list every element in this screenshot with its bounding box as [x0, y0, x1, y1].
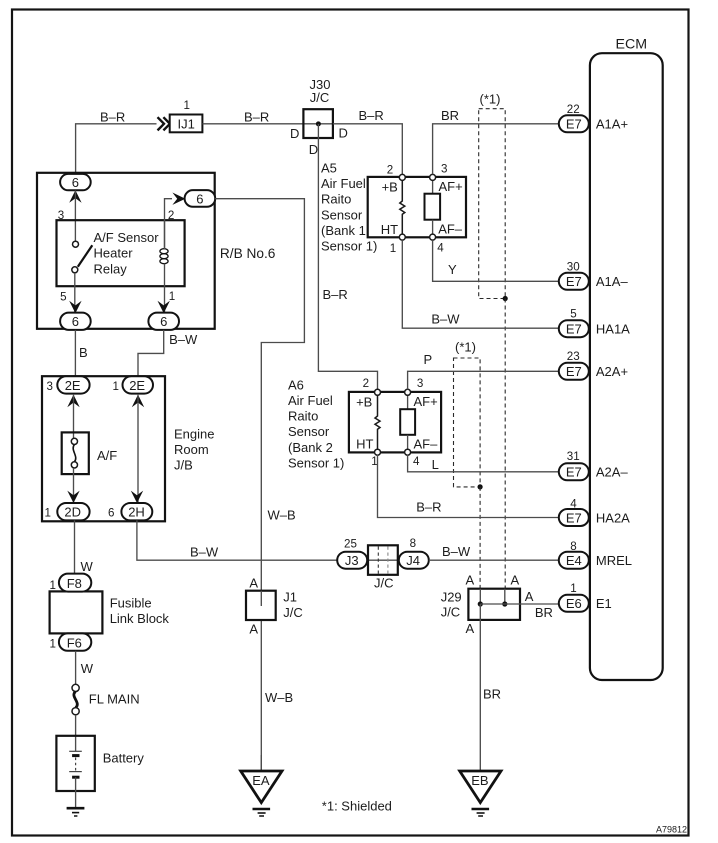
- svg-text:(Bank 1: (Bank 1: [321, 223, 366, 238]
- svg-text:2D: 2D: [64, 505, 81, 520]
- svg-text:2E: 2E: [65, 378, 81, 393]
- arrow into connector 6 top-left: [69, 190, 81, 203]
- junction block Engine Room J/B: [42, 376, 214, 521]
- svg-text:25: 25: [344, 538, 357, 551]
- svg-text:6: 6: [196, 191, 203, 206]
- svg-text:+B: +B: [382, 180, 398, 195]
- svg-text:Sensor: Sensor: [288, 424, 330, 439]
- svg-text:J29: J29: [441, 590, 462, 605]
- wire 2E pin3 to fuse: [73, 395, 75, 438]
- ECM terminal E6 pin 1 E1: [559, 582, 612, 612]
- svg-text:E7: E7: [566, 274, 582, 289]
- arrow into connector 6 bottom-left: [69, 301, 81, 313]
- svg-text:BR: BR: [483, 687, 501, 702]
- svg-text:HT: HT: [356, 436, 373, 451]
- connector IJ1 chevron: [158, 117, 170, 130]
- wire W-B relay pin 2 to J1 via corner: [215, 199, 304, 591]
- svg-text:E4: E4: [566, 553, 582, 568]
- svg-text:BR: BR: [441, 108, 459, 123]
- connector 2E pin 3: [47, 376, 90, 393]
- svg-text:L: L: [432, 457, 439, 472]
- connector 2E pin 1: [113, 376, 154, 393]
- svg-text:HA1A: HA1A: [596, 322, 630, 337]
- wire BR J29 to ground EB: [479, 604, 481, 771]
- svg-text:6: 6: [108, 507, 114, 520]
- svg-text:B–R: B–R: [416, 500, 441, 515]
- svg-text:3: 3: [417, 377, 423, 390]
- wire FL MAIN to battery: [75, 715, 77, 751]
- ECM terminal E7 pin 30 A1A-: [559, 261, 629, 290]
- svg-text:2: 2: [363, 377, 369, 390]
- svg-text:A1A+: A1A+: [596, 117, 628, 132]
- svg-text:E1: E1: [596, 596, 612, 611]
- connector 6 (R/B top-left, pin 3): [60, 174, 91, 190]
- shield around A5 signal wires (*1): [479, 91, 508, 301]
- svg-text:Air Fuel: Air Fuel: [288, 393, 333, 408]
- svg-text:W: W: [81, 559, 94, 574]
- wire BR A5 AF+ to ECM A1A+: [433, 124, 560, 175]
- svg-text:F6: F6: [67, 635, 82, 650]
- svg-text:Heater: Heater: [94, 246, 134, 261]
- A5 pin 4: [430, 234, 445, 254]
- wire W from 2D to F8: [74, 520, 76, 574]
- junction connector J1 J/C: [246, 576, 303, 637]
- svg-text:(*1): (*1): [455, 339, 476, 354]
- svg-text:(Bank 2: (Bank 2: [288, 440, 333, 455]
- relay block R/B No.6: [37, 173, 276, 329]
- svg-text:Engine: Engine: [174, 426, 214, 441]
- svg-text:6: 6: [160, 314, 167, 329]
- svg-text:4: 4: [437, 242, 444, 255]
- svg-text:A2A+: A2A+: [596, 364, 628, 379]
- A5 heater resistor: [400, 181, 405, 235]
- svg-text:5: 5: [60, 291, 66, 304]
- connector 6 (R/B bottom-left, pin 5): [60, 313, 91, 330]
- wire B from relay pin 5 to 2E: [74, 330, 76, 377]
- svg-text:Fusible: Fusible: [110, 596, 152, 611]
- wire relay pin 5: [74, 273, 76, 312]
- svg-text:Raito: Raito: [288, 409, 318, 424]
- ECM terminal E7 pin 5 HA1A: [559, 308, 630, 338]
- connector F6: [50, 633, 92, 650]
- svg-text:E6: E6: [566, 596, 582, 611]
- svg-text:1: 1: [113, 380, 119, 393]
- svg-text:6: 6: [72, 175, 79, 190]
- svg-text:4: 4: [413, 455, 420, 468]
- svg-text:J/C: J/C: [283, 605, 303, 620]
- wire B-R from J30 to A5 +B: [333, 124, 402, 175]
- svg-text:A1A–: A1A–: [596, 274, 629, 289]
- svg-text:EB: EB: [471, 773, 488, 788]
- svg-text:J4: J4: [406, 553, 420, 568]
- ground EA: [241, 755, 282, 816]
- svg-text:A/F: A/F: [97, 448, 117, 463]
- arrow into connector 6 bottom-right: [158, 301, 170, 313]
- wire B-R A6 HT to ECM HA2A: [378, 455, 560, 518]
- svg-text:3: 3: [47, 380, 53, 393]
- svg-text:BR: BR: [535, 605, 553, 620]
- svg-text:Sensor 1): Sensor 1): [321, 239, 377, 254]
- wire L A6 AF- to ECM A2A-: [408, 455, 560, 472]
- svg-text:B–W: B–W: [431, 312, 460, 327]
- svg-text:1: 1: [371, 455, 377, 468]
- svg-text:Relay: Relay: [94, 261, 128, 276]
- svg-text:A: A: [466, 572, 475, 587]
- svg-text:1: 1: [45, 507, 51, 520]
- wire relay pin 1: [164, 286, 166, 312]
- svg-text:Link Block: Link Block: [110, 611, 170, 626]
- svg-text:MREL: MREL: [596, 553, 632, 568]
- wire 2E pin1 to 2H: [137, 395, 139, 503]
- svg-text:22: 22: [567, 103, 580, 116]
- svg-text:Sensor: Sensor: [321, 207, 363, 222]
- fusible link FL MAIN: [72, 684, 140, 715]
- connector 2D pin 1: [45, 503, 90, 520]
- svg-text:31: 31: [567, 450, 580, 463]
- wire B-W J4 to ECM MREL: [429, 559, 559, 561]
- svg-text:A: A: [249, 576, 258, 591]
- svg-text:Room: Room: [174, 442, 209, 457]
- A/F sensor heater relay K1: [57, 220, 185, 286]
- svg-text:E7: E7: [566, 465, 582, 480]
- svg-text:HA2A: HA2A: [596, 510, 630, 525]
- svg-text:Battery: Battery: [103, 751, 145, 766]
- svg-text:+B: +B: [356, 395, 372, 410]
- connector J4 pin 8: [399, 537, 429, 569]
- svg-text:A/F Sensor: A/F Sensor: [94, 230, 160, 245]
- battery B1: [56, 736, 144, 791]
- svg-text:B: B: [79, 345, 88, 360]
- svg-text:(*1): (*1): [480, 91, 501, 106]
- svg-text:EA: EA: [252, 773, 270, 788]
- shield drain dashed wire to J29: [479, 487, 481, 589]
- ECM terminal E7 pin 22 A1A+: [559, 103, 628, 132]
- svg-text:1: 1: [570, 582, 576, 595]
- svg-text:A: A: [511, 572, 520, 587]
- svg-text:A: A: [466, 621, 475, 636]
- svg-text:ECM: ECM: [616, 37, 648, 53]
- wire B-W 2H to J3: [137, 520, 337, 560]
- svg-text:Air Fuel: Air Fuel: [321, 176, 366, 191]
- svg-text:W–B: W–B: [265, 690, 293, 705]
- svg-text:B–R: B–R: [244, 110, 269, 125]
- svg-text:A: A: [525, 589, 534, 604]
- svg-text:A6: A6: [288, 377, 304, 392]
- connector F8: [50, 574, 92, 592]
- shield around A6 signal wires (*1): [454, 339, 483, 489]
- svg-text:F8: F8: [67, 576, 82, 591]
- svg-text:IJ1: IJ1: [178, 117, 195, 132]
- svg-text:1: 1: [50, 638, 56, 651]
- svg-text:A79812: A79812: [656, 825, 687, 835]
- wire battery to ground: [75, 777, 77, 807]
- svg-text:A: A: [249, 621, 258, 636]
- arrow into 2D: [67, 491, 79, 503]
- svg-text:Sensor 1): Sensor 1): [288, 456, 344, 471]
- A5 pin 1: [390, 234, 406, 255]
- svg-text:1: 1: [184, 99, 190, 112]
- svg-text:J/B: J/B: [174, 458, 193, 473]
- junction connector J/C between J3 and J4: [367, 545, 399, 590]
- connector 6 (R/B top-right, pin 2): [185, 190, 216, 207]
- fuse A/F: [62, 432, 118, 474]
- junction connector J30 J/C: [290, 77, 348, 157]
- svg-text:P: P: [424, 352, 433, 367]
- svg-text:E7: E7: [566, 510, 582, 525]
- svg-text:2: 2: [387, 164, 393, 177]
- svg-text:J/C: J/C: [374, 575, 394, 590]
- svg-text:R/B No.6: R/B No.6: [220, 246, 276, 261]
- svg-text:D: D: [290, 126, 299, 141]
- svg-text:23: 23: [567, 350, 580, 363]
- svg-text:B–W: B–W: [169, 332, 198, 347]
- svg-text:E7: E7: [566, 364, 582, 379]
- svg-text:B–W: B–W: [442, 544, 471, 559]
- svg-text:W–B: W–B: [268, 508, 296, 523]
- svg-text:J/C: J/C: [310, 90, 330, 105]
- svg-text:2: 2: [168, 209, 174, 222]
- arrow into 2E pin 3: [67, 395, 79, 408]
- arrow into 2E pin 1: [132, 395, 144, 408]
- svg-text:3: 3: [441, 163, 447, 176]
- svg-text:FL MAIN: FL MAIN: [89, 692, 140, 707]
- ECM U1: [590, 37, 663, 681]
- svg-text:B–R: B–R: [100, 110, 125, 125]
- svg-text:Raito: Raito: [321, 192, 351, 207]
- svg-text:J1: J1: [283, 589, 297, 604]
- wire relay pin 2 to connector: [165, 199, 173, 249]
- svg-text:A2A–: A2A–: [596, 465, 629, 480]
- svg-text:B–R: B–R: [359, 108, 384, 123]
- wire B-R from J30 down to A6 +B: [318, 124, 377, 390]
- junction connector J29 J/C: [441, 572, 553, 636]
- svg-text:B–W: B–W: [190, 545, 219, 560]
- wire Y A5 AF- to ECM A1A-: [433, 240, 560, 281]
- shield drain dashed wire to J29: [504, 299, 506, 589]
- svg-text:AF+: AF+: [414, 394, 438, 409]
- svg-text:AF+: AF+: [439, 179, 463, 194]
- air fuel ratio sensor A5 (bank 1 sensor 1): [321, 160, 466, 253]
- ECM terminal E4 pin 8 MREL: [559, 540, 632, 569]
- A5 sensing element: [425, 181, 441, 235]
- svg-text:*1: Shielded: *1: Shielded: [322, 799, 392, 814]
- connector IJ1: [170, 115, 203, 133]
- svg-text:J3: J3: [345, 553, 359, 568]
- A6 pin 3: [405, 377, 424, 395]
- wire J29 to ECM E1: [480, 603, 559, 605]
- ECM terminal E7 pin 31 A2A-: [559, 450, 629, 480]
- ground EB: [460, 771, 501, 816]
- relay coil L1: [160, 220, 168, 286]
- svg-text:AF–: AF–: [438, 222, 463, 237]
- wire B-R from IJ1 to J30: [202, 123, 303, 125]
- arrow into connector 6 top-right: [172, 193, 185, 205]
- svg-text:2E: 2E: [129, 378, 145, 393]
- wire P A6 AF+ to ECM A2A+: [408, 371, 560, 389]
- A6 pin 2: [363, 377, 381, 395]
- svg-text:E7: E7: [566, 117, 582, 132]
- svg-text:J/C: J/C: [441, 605, 461, 620]
- ECM terminal E7 pin 23 A2A+: [559, 350, 628, 380]
- connector 2H pin 6: [108, 503, 152, 520]
- svg-text:8: 8: [410, 537, 416, 550]
- A5 pin 2: [387, 164, 406, 181]
- wire B-W A5 HT to ECM HA1A: [402, 240, 559, 328]
- svg-text:1: 1: [390, 242, 396, 255]
- ground (battery): [67, 808, 85, 816]
- svg-text:D: D: [339, 126, 348, 141]
- svg-text:W: W: [81, 661, 94, 676]
- A6 pin 4: [405, 449, 420, 468]
- A6 pin 1: [371, 449, 380, 468]
- A6 heater resistor: [375, 396, 380, 450]
- svg-text:D: D: [309, 142, 318, 157]
- A5 pin 3: [430, 163, 448, 181]
- arrow into 2H: [131, 491, 143, 503]
- ECM terminal E7 pin 4 HA2A: [559, 498, 630, 527]
- svg-text:AF–: AF–: [414, 436, 439, 451]
- connector J3 pin 25: [337, 538, 367, 569]
- wire relay pin 3: [74, 191, 76, 242]
- svg-text:B–R: B–R: [323, 287, 348, 302]
- wire B-R from relay pin 3 to IJ1: [76, 124, 157, 175]
- A6 sensing element: [400, 396, 415, 450]
- svg-text:E7: E7: [566, 322, 582, 337]
- svg-text:30: 30: [567, 261, 580, 274]
- svg-text:1: 1: [50, 579, 56, 592]
- svg-text:6: 6: [72, 314, 79, 329]
- svg-text:2H: 2H: [128, 505, 145, 520]
- wire W-B lower segment through J1: [260, 620, 262, 771]
- relay switch contacts: [72, 241, 93, 273]
- wire B-W from relay pin 1 to 2E: [138, 330, 164, 377]
- wire W from F6 to FL MAIN: [75, 651, 77, 685]
- svg-text:HT: HT: [381, 222, 398, 237]
- connector 6 (R/B bottom-right, pin 1): [148, 313, 179, 330]
- svg-text:5: 5: [570, 308, 576, 321]
- air fuel ratio sensor A6 (bank 2 sensor 1): [288, 377, 441, 470]
- svg-text:A5: A5: [321, 160, 337, 175]
- fusible link block: [50, 591, 170, 633]
- svg-text:Y: Y: [448, 262, 457, 277]
- wire fuse to 2D: [73, 468, 75, 503]
